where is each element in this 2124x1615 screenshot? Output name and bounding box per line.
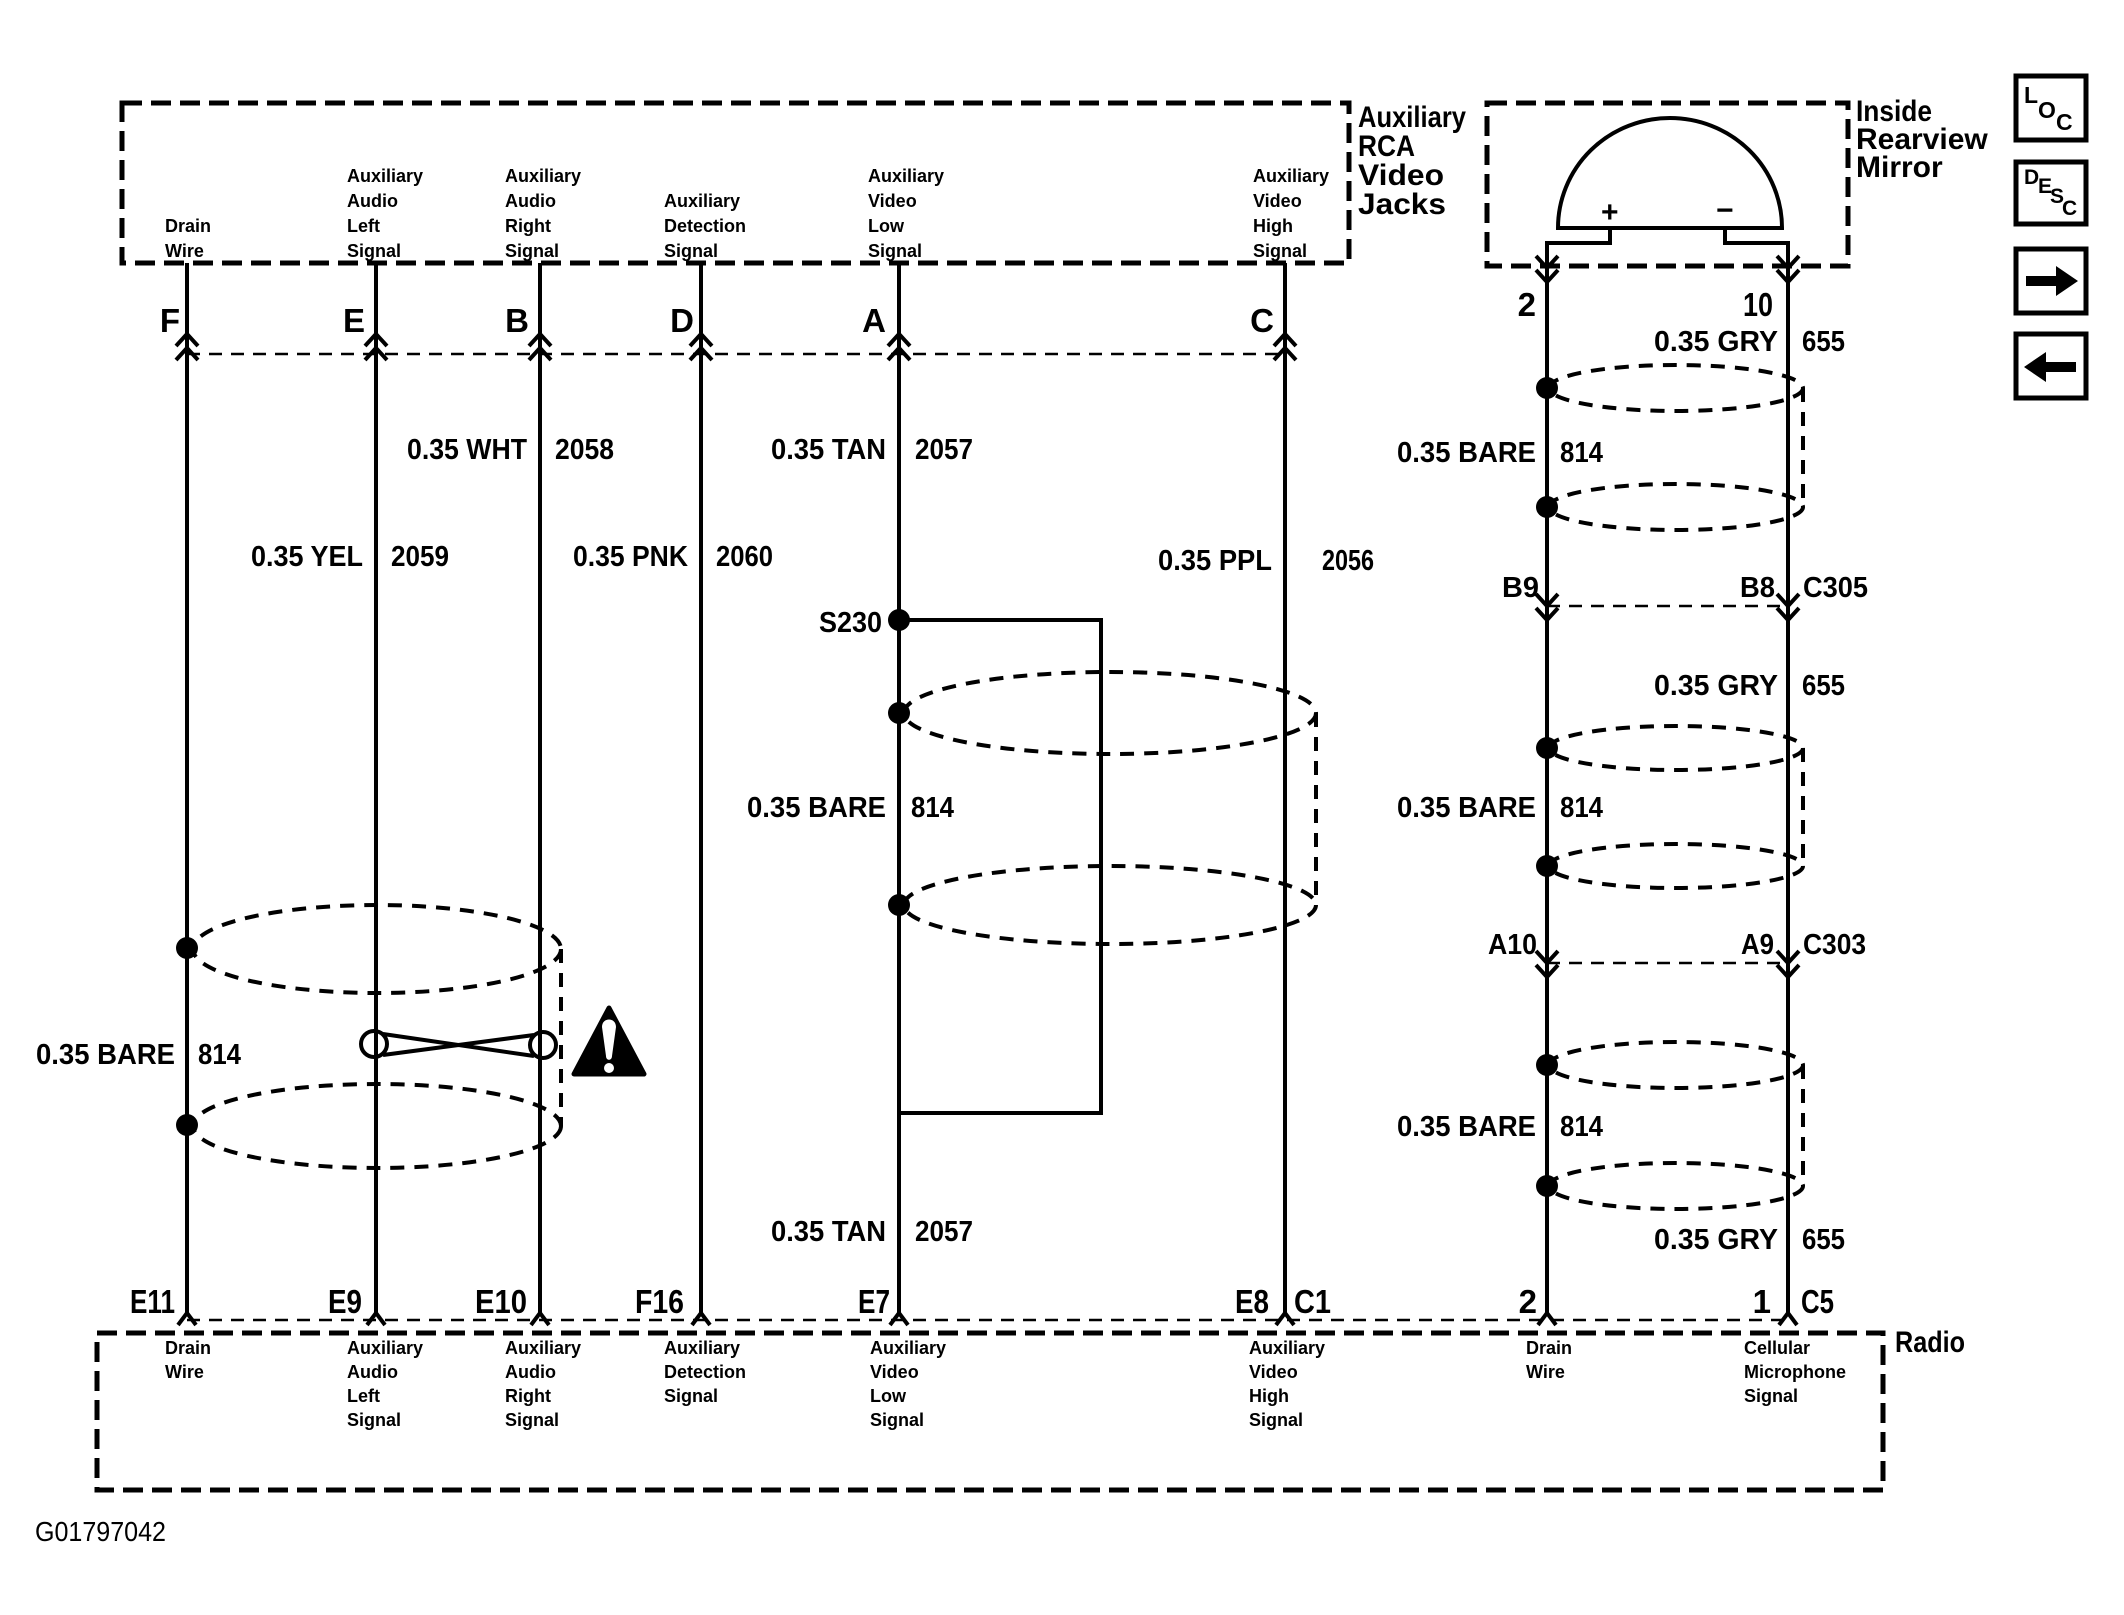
svg-text:L: L: [2024, 82, 2038, 108]
svg-text:814: 814: [1560, 792, 1603, 824]
fork E8: [1276, 1313, 1294, 1325]
warning symbol: [574, 1008, 644, 1074]
svg-text:Signal: Signal: [505, 241, 559, 261]
svg-text:Right: Right: [505, 216, 551, 236]
svg-text:0.35 BARE: 0.35 BARE: [747, 792, 886, 824]
shield tap node r2 top: [1536, 737, 1558, 759]
svg-text:Audio: Audio: [347, 1362, 398, 1382]
svg-text:Jacks: Jacks: [1358, 188, 1446, 221]
wire label 0.35 WHT 2058: [407, 434, 614, 466]
svg-text:Auxiliary: Auxiliary: [870, 1338, 946, 1358]
svg-text:C1: C1: [1294, 1283, 1331, 1320]
svg-text:1: 1: [1753, 1283, 1771, 1320]
svg-text:Video: Video: [870, 1362, 919, 1382]
svg-text:D: D: [2024, 166, 2039, 189]
connector box Auxiliary RCA Video Jacks: [122, 103, 1349, 263]
svg-text:Auxiliary: Auxiliary: [664, 191, 740, 211]
wire label 0.35 GRY 655 mid right: [1654, 670, 1845, 702]
fork radio 1: [1779, 1313, 1797, 1325]
wire label 0.35 PNK 2060: [573, 541, 773, 573]
svg-text:Signal: Signal: [664, 241, 718, 261]
svg-text:Low: Low: [870, 1386, 907, 1406]
wire label 0.35 GRY 655 upper right: [1654, 326, 1845, 358]
arrow up wire F: [176, 334, 198, 360]
svg-text:High: High: [1253, 216, 1293, 236]
svg-text:F16: F16: [635, 1283, 684, 1320]
shield tap node top left: [176, 937, 198, 959]
wire label 0.35 BARE 814 right 2: [1397, 792, 1603, 824]
svg-text:0.35 GRY: 0.35 GRY: [1654, 670, 1778, 702]
svg-text:Detection: Detection: [664, 216, 746, 236]
svg-text:C5: C5: [1801, 1283, 1834, 1320]
svg-text:E8: E8: [1235, 1283, 1269, 1320]
svg-text:0.35 PNK: 0.35 PNK: [573, 541, 688, 573]
arrow up wire A: [888, 334, 910, 360]
svg-text:0.35 WHT: 0.35 WHT: [407, 434, 527, 466]
svg-text:Detection: Detection: [664, 1362, 746, 1382]
svg-text:Right: Right: [505, 1386, 551, 1406]
svg-text:0.35 BARE: 0.35 BARE: [1397, 437, 1536, 469]
icon arrow right: [2016, 249, 2086, 313]
wire label 0.35 GRY 655 lower right: [1654, 1224, 1845, 1256]
svg-text:Video: Video: [1253, 191, 1302, 211]
wire mirror 10 signal: [1786, 266, 1790, 1313]
shield tap node r3 bottom: [1536, 1175, 1558, 1197]
svg-text:F: F: [160, 302, 180, 339]
svg-text:Signal: Signal: [870, 1410, 924, 1430]
svg-text:Audio: Audio: [505, 1362, 556, 1382]
label Inside Rearview Mirror: [1856, 95, 1988, 184]
icon DESC: [2016, 162, 2086, 224]
mirror pin 2 arrow: [1536, 256, 1558, 282]
arrow up wire D: [690, 334, 712, 360]
svg-text:C: C: [2056, 109, 2073, 135]
svg-text:High: High: [1249, 1386, 1289, 1406]
svg-text:Low: Low: [868, 216, 905, 236]
svg-text:2060: 2060: [716, 541, 773, 573]
shield tap node r1 top: [1536, 377, 1558, 399]
svg-text:Drain: Drain: [165, 216, 211, 236]
svg-text:Audio: Audio: [347, 191, 398, 211]
mirror dome symbol: [1547, 118, 1788, 266]
svg-text:Signal: Signal: [868, 241, 922, 261]
svg-text:Auxiliary: Auxiliary: [1249, 1338, 1325, 1358]
wire C aux video high: [1283, 263, 1287, 1313]
svg-text:Signal: Signal: [1253, 241, 1307, 261]
arrow down A9: [1777, 951, 1799, 977]
shield cylinder right 1: [1549, 365, 1803, 530]
svg-text:0.35 TAN: 0.35 TAN: [771, 1216, 886, 1248]
svg-text:A9: A9: [1741, 929, 1774, 961]
svg-text:Cellular: Cellular: [1744, 1338, 1810, 1358]
svg-text:0.35 PPL: 0.35 PPL: [1158, 545, 1272, 577]
svg-text:Mirror: Mirror: [1856, 151, 1943, 184]
svg-text:Audio: Audio: [505, 191, 556, 211]
wire D aux detection: [699, 263, 703, 1313]
fork F16: [692, 1313, 710, 1325]
svg-text:G01797042: G01797042: [35, 1516, 166, 1547]
svg-text:S230: S230: [819, 607, 882, 639]
svg-text:E11: E11: [130, 1283, 175, 1320]
shield tap node bottom left: [176, 1114, 198, 1136]
svg-text:655: 655: [1802, 1224, 1845, 1256]
icon arrow left: [2016, 334, 2086, 398]
wire label 0.35 TAN 2057: [771, 434, 973, 466]
svg-text:2057: 2057: [915, 434, 973, 466]
fork E11: [178, 1313, 196, 1325]
svg-text:2058: 2058: [555, 434, 614, 466]
svg-text:B9: B9: [1502, 572, 1539, 604]
svg-text:0.35 YEL: 0.35 YEL: [251, 541, 363, 573]
svg-text:2056: 2056: [1322, 545, 1374, 577]
fork radio 2: [1538, 1313, 1556, 1325]
svg-text:Auxiliary: Auxiliary: [868, 166, 944, 186]
svg-text:Auxiliary: Auxiliary: [347, 1338, 423, 1358]
arrow down A10: [1536, 951, 1558, 977]
svg-text:814: 814: [1560, 437, 1603, 469]
fork E10: [531, 1313, 549, 1325]
arrow up wire E: [365, 334, 387, 360]
svg-text:Left: Left: [347, 216, 380, 236]
connector box Radio: [97, 1333, 1883, 1490]
svg-text:Drain: Drain: [165, 1338, 211, 1358]
label Auxiliary RCA Video Jacks: [1358, 101, 1466, 221]
svg-text:C: C: [1250, 302, 1274, 339]
svg-text:0.35 BARE: 0.35 BARE: [1397, 792, 1536, 824]
svg-text:Auxiliary: Auxiliary: [347, 166, 423, 186]
shield tap node bottom: [888, 894, 910, 916]
svg-text:Video: Video: [1249, 1362, 1298, 1382]
icon LOC: [2016, 76, 2086, 140]
wire E aux audio left: [374, 263, 378, 1313]
shield cylinder left: [193, 905, 561, 1168]
svg-text:+: +: [1601, 196, 1619, 229]
shield tap node r1 bottom: [1536, 496, 1558, 518]
svg-text:Wire: Wire: [1526, 1362, 1565, 1382]
wire F drain: [185, 263, 189, 1313]
svg-text:Wire: Wire: [165, 241, 204, 261]
arrow down B9: [1536, 594, 1558, 620]
svg-text:0.35 BARE: 0.35 BARE: [36, 1039, 175, 1071]
svg-text:0.35 TAN: 0.35 TAN: [771, 434, 886, 466]
fork E7: [890, 1313, 908, 1325]
shield tap node r3 top: [1536, 1054, 1558, 1076]
wire A aux video low: [897, 263, 901, 1313]
svg-text:655: 655: [1802, 326, 1845, 358]
svg-text:B: B: [505, 302, 529, 339]
shield tap node top: [888, 702, 910, 724]
svg-text:Auxiliary: Auxiliary: [1253, 166, 1329, 186]
svg-text:Signal: Signal: [347, 241, 401, 261]
wire label 0.35 BARE 814 right 1: [1397, 437, 1603, 469]
svg-text:2: 2: [1518, 286, 1536, 323]
splice S230: [819, 607, 910, 639]
svg-text:Radio: Radio: [1895, 1326, 1965, 1359]
svg-text:Microphone: Microphone: [1744, 1362, 1846, 1382]
svg-text:Drain: Drain: [1526, 1338, 1572, 1358]
svg-text:E9: E9: [328, 1283, 362, 1320]
svg-text:E10: E10: [475, 1283, 527, 1320]
wire label 0.35 BARE 814 middle: [747, 792, 954, 824]
svg-text:814: 814: [1560, 1111, 1603, 1143]
svg-text:Signal: Signal: [505, 1410, 559, 1430]
svg-text:814: 814: [198, 1039, 241, 1071]
shield cylinder middle: [904, 672, 1316, 944]
inline connector C303: [1488, 929, 1866, 963]
shield cylinder right 3: [1549, 1042, 1803, 1209]
harness dashed line top: [187, 353, 1285, 356]
wire label 0.35 BARE 814 right 3: [1397, 1111, 1603, 1143]
arrow up wire C: [1274, 334, 1296, 360]
svg-text:2: 2: [1519, 1283, 1537, 1320]
svg-text:B8: B8: [1740, 572, 1775, 604]
svg-text:C: C: [2062, 197, 2077, 220]
svg-text:C305: C305: [1803, 572, 1868, 604]
wire label 0.35 YEL 2059: [251, 541, 449, 573]
wire B aux audio right: [538, 263, 542, 1313]
wire splice loop: [899, 620, 1101, 1113]
mirror pin 10 arrow: [1777, 256, 1799, 282]
harness dashed line bottom: [187, 1319, 1788, 1322]
svg-text:Auxiliary: Auxiliary: [505, 166, 581, 186]
svg-text:Left: Left: [347, 1386, 380, 1406]
arrow up wire B: [529, 334, 551, 360]
svg-text:Signal: Signal: [347, 1410, 401, 1430]
shield tap node r2 bottom: [1536, 855, 1558, 877]
fork E9: [367, 1313, 385, 1325]
svg-text:−: −: [1716, 194, 1734, 227]
svg-text:Wire: Wire: [165, 1362, 204, 1382]
svg-text:0.35 BARE: 0.35 BARE: [1397, 1111, 1536, 1143]
inline connector C305: [1502, 572, 1868, 606]
svg-text:655: 655: [1802, 670, 1845, 702]
wire label 0.35 BARE 814 left: [36, 1039, 241, 1071]
twisted pair symbol: [361, 1031, 556, 1058]
wire mirror 2 drain: [1545, 266, 1549, 1313]
svg-text:814: 814: [911, 792, 954, 824]
svg-text:2059: 2059: [391, 541, 449, 573]
wire label 0.35 PPL 2056: [1158, 545, 1374, 577]
svg-text:A: A: [862, 302, 886, 339]
svg-text:Video: Video: [868, 191, 917, 211]
svg-text:E7: E7: [858, 1283, 890, 1320]
svg-text:Signal: Signal: [1744, 1386, 1798, 1406]
connector box Inside Rearview Mirror: [1487, 103, 1848, 266]
wire label 0.35 TAN 2057 lower: [771, 1216, 973, 1248]
svg-text:A10: A10: [1488, 929, 1537, 961]
svg-text:C303: C303: [1803, 929, 1866, 961]
svg-text:O: O: [2038, 97, 2056, 123]
svg-text:D: D: [670, 302, 694, 339]
arrow down B8: [1777, 594, 1799, 620]
svg-text:0.35 GRY: 0.35 GRY: [1654, 326, 1778, 358]
svg-text:Auxiliary: Auxiliary: [664, 1338, 740, 1358]
svg-text:Auxiliary: Auxiliary: [505, 1338, 581, 1358]
svg-text:10: 10: [1743, 286, 1773, 323]
svg-text:Signal: Signal: [1249, 1410, 1303, 1430]
svg-text:2057: 2057: [915, 1216, 973, 1248]
svg-text:0.35 GRY: 0.35 GRY: [1654, 1224, 1778, 1256]
svg-text:E: E: [343, 302, 365, 339]
svg-text:Signal: Signal: [664, 1386, 718, 1406]
shield cylinder right 2: [1549, 726, 1803, 888]
